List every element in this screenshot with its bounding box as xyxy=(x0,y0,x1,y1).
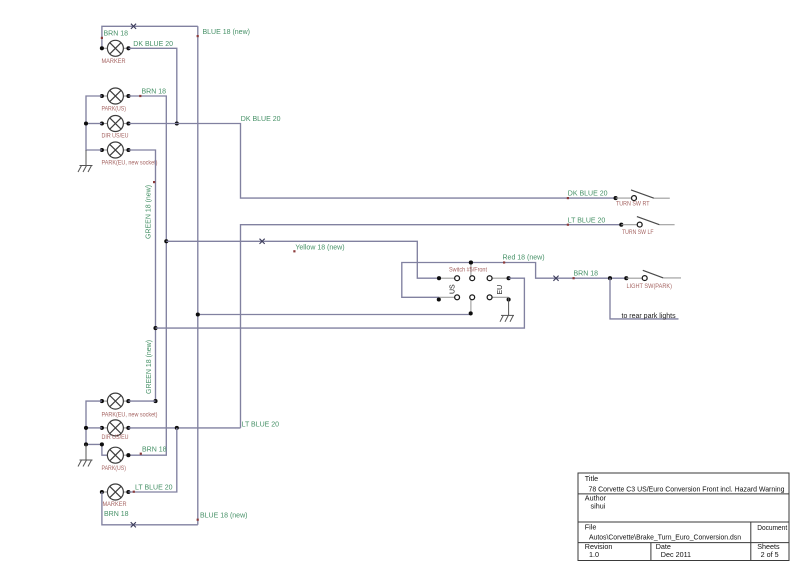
svg-text:LIGHT SW(PARK): LIGHT SW(PARK) xyxy=(627,283,673,290)
title block xyxy=(578,473,789,561)
svg-text:78 Corvette C3 US/Euro Convers: 78 Corvette C3 US/Euro Conversion Front … xyxy=(589,484,785,493)
pin lead mid bottom xyxy=(470,299,472,314)
pin circle row2 c3 xyxy=(487,295,492,300)
junction dot LT BLUE riser xyxy=(175,426,179,430)
lamp PARK(US) (bottom) xyxy=(86,442,130,463)
pad dot EU bottom xyxy=(507,297,511,301)
tick BRN 18 top anchor xyxy=(101,37,103,39)
junction dot Red at mid pin lead xyxy=(469,260,473,264)
svg-text:PARK(US): PARK(US) xyxy=(102,465,127,472)
node ground bus (top-left) xyxy=(86,96,102,150)
svg-text:Red 18 (new): Red 18 (new) xyxy=(503,255,545,262)
tick DK BLUE right anchor xyxy=(567,197,569,199)
wire bottom lamp to GREEN terminal xyxy=(128,400,155,402)
X crossing mark on yellow wire xyxy=(260,239,265,244)
svg-text:GREEN 18 (new): GREEN 18 (new) xyxy=(146,340,153,394)
pad dot mid bottom xyxy=(469,311,473,315)
svg-text:TURN SW RT: TURN SW RT xyxy=(616,200,650,207)
svg-text:sihui: sihui xyxy=(591,502,606,511)
turn switch RT xyxy=(614,190,670,201)
ground lead (top-left) xyxy=(85,150,87,165)
svg-text:EU: EU xyxy=(497,285,504,295)
lamp PARK(EU, new socket) (bottom) xyxy=(100,393,131,409)
pin lead right top xyxy=(492,277,509,279)
tick GREEN top anchor xyxy=(153,181,155,183)
svg-text:BLUE 18 (new): BLUE 18 (new) xyxy=(200,512,247,519)
junction dot bus DIR (bottom) xyxy=(84,426,88,430)
wire BLUE 18 (new) vertical bus xyxy=(197,26,199,525)
pin lead left top xyxy=(439,277,455,279)
tick BRN bottom anchor xyxy=(140,453,142,455)
lamp MARKER (bottom) xyxy=(100,484,131,500)
svg-text:BLUE 18 (new): BLUE 18 (new) xyxy=(203,29,250,36)
svg-text:US: US xyxy=(449,284,456,294)
junction dot bus (top) xyxy=(84,121,88,125)
junction dot GREEN at EU horizontal xyxy=(153,326,157,330)
ground lead (switch EU) xyxy=(508,297,510,315)
svg-text:PARK(EU, new socket): PARK(EU, new socket) xyxy=(102,159,158,166)
X crossing mark on top run xyxy=(131,24,136,29)
pad dot EU top xyxy=(507,276,511,280)
svg-text:Yellow 18 (new): Yellow 18 (new) xyxy=(295,245,344,252)
pin circle row2 c1 xyxy=(455,295,460,300)
wire to rear park lights xyxy=(610,278,679,319)
wire BRN 18 top run from MARKER left up and across to BLUE 18 vertical xyxy=(102,26,198,48)
svg-text:DK BLUE 20: DK BLUE 20 xyxy=(568,191,608,198)
wire bus tee to DIR (bottom) xyxy=(86,427,102,429)
tick Red anchor xyxy=(503,261,505,263)
svg-text:Dec 2011: Dec 2011 xyxy=(661,550,691,559)
junction dot GREEN at bottom lamp xyxy=(153,399,157,403)
junction dot BLUE branch xyxy=(196,312,200,316)
pin lead left bottom xyxy=(439,296,455,298)
pin circle row1 c3 xyxy=(487,276,492,281)
wire GREEN 18 (new) vertical xyxy=(129,150,156,401)
svg-text:DK BLUE 20: DK BLUE 20 xyxy=(241,116,281,123)
wire BLUE 18 branch to switch mid bottom xyxy=(198,314,471,316)
tick BRN 18 anchor xyxy=(139,95,141,97)
svg-text:Document: Document xyxy=(757,523,787,532)
pin lead mid top xyxy=(470,263,472,277)
tick BRN right anchor xyxy=(573,277,575,279)
svg-text:Autos\Corvette\Brake_Turn_Euro: Autos\Corvette\Brake_Turn_Euro_Conversio… xyxy=(589,532,741,541)
tick Yellow anchor xyxy=(293,250,295,252)
ground (bottom-left) xyxy=(78,460,93,467)
svg-text:DIR US/EU: DIR US/EU xyxy=(102,434,129,441)
wire BRN 18 bottom run from MARKER to BLUE vertical xyxy=(102,492,198,525)
node ground bus (bottom-left) xyxy=(86,401,102,444)
ground (switch EU) xyxy=(500,315,514,321)
junction dot BRN/Yellow node xyxy=(164,239,168,243)
svg-text:LT BLUE 20: LT BLUE 20 xyxy=(242,422,280,429)
svg-text:BRN 18: BRN 18 xyxy=(142,446,167,453)
pad dot mid top xyxy=(469,260,473,264)
svg-text:BRN 18: BRN 18 xyxy=(574,271,599,278)
svg-text:to rear park lights: to rear park lights xyxy=(622,313,677,320)
light switch (PARK) xyxy=(608,270,681,280)
pin circle row1 c2 xyxy=(470,276,475,281)
ground lead (bottom-left) xyxy=(85,444,87,459)
lamp DIR US/EU (top) xyxy=(100,116,131,132)
wire Red 18 (new) from switch US bottom loop to light switch xyxy=(402,263,627,298)
wire DK BLUE 20 from MARKER down to DIR node xyxy=(129,48,177,123)
svg-text:MARKER: MARKER xyxy=(103,501,127,508)
wire DK BLUE 20 from DIR right across and down to turn switch RT xyxy=(129,124,616,199)
wire GREEN branch from green vertical to switch EU top xyxy=(156,278,525,328)
lamp PARK(EU, new socket) (top) xyxy=(100,142,131,158)
svg-text:LT BLUE 20: LT BLUE 20 xyxy=(568,217,606,224)
svg-text:2 of 5: 2 of 5 xyxy=(761,550,779,559)
svg-text:GREEN 18 (new): GREEN 18 (new) xyxy=(145,185,152,239)
pin circle row2 c2 xyxy=(470,295,475,300)
tick BLUE 18 top anchor xyxy=(197,35,199,37)
svg-text:BRN 18: BRN 18 xyxy=(142,89,167,96)
svg-text:BRN 18: BRN 18 xyxy=(104,31,129,38)
svg-text:TURN SW LF: TURN SW LF xyxy=(622,229,654,236)
tick BLUE bottom anchor xyxy=(197,519,199,521)
lamp DIR US/EU (bottom) xyxy=(100,420,131,436)
X crossing mark on red/brn wire xyxy=(553,276,558,281)
tick LT BLUE bottom anchor xyxy=(133,491,135,493)
svg-text:Title: Title xyxy=(585,474,598,483)
wire bus tee to DIR (top) xyxy=(86,123,102,125)
pad dot US top xyxy=(437,276,441,280)
wire LT BLUE 20 from bottom MARKER up to DIR wire xyxy=(128,428,176,492)
svg-text:BRN 18: BRN 18 xyxy=(104,511,129,518)
svg-text:File: File xyxy=(585,523,597,532)
pin lead right bottom xyxy=(492,296,509,298)
svg-text:PARK(EU, new socket): PARK(EU, new socket) xyxy=(102,411,158,418)
lamp MARKER (top) xyxy=(100,40,131,56)
svg-text:DIR US/EU: DIR US/EU xyxy=(102,132,129,139)
tick LT BLUE right anchor xyxy=(567,224,569,226)
svg-text:Switch #5/Front: Switch #5/Front xyxy=(449,267,487,274)
wire LT BLUE 20 across to turn switch LF xyxy=(241,225,622,428)
svg-text:DK BLUE 20: DK BLUE 20 xyxy=(133,41,173,48)
svg-text:LT BLUE 20: LT BLUE 20 xyxy=(135,484,173,491)
wire LT BLUE 20 bottom run xyxy=(128,427,240,429)
pin circle row1 c1 xyxy=(455,276,460,281)
junction dot bus PARK US (bottom) xyxy=(84,442,88,446)
wire BRN 18 vertical from top PARK(US) to bottom PARK(US) xyxy=(128,96,166,455)
junction dot DK BLUE at DIR wire xyxy=(175,121,179,125)
ground (top-left) xyxy=(78,166,93,173)
pad dot US bottom xyxy=(437,297,441,301)
svg-text:PARK(US): PARK(US) xyxy=(102,105,127,112)
switch Switch #5/Front xyxy=(437,263,511,315)
lamp PARK(US) (top) xyxy=(100,88,131,104)
wire Yellow 18 (new) from BRN junction to switch US top xyxy=(166,241,439,278)
svg-text:1.0: 1.0 xyxy=(589,550,599,559)
svg-text:MARKER: MARKER xyxy=(102,58,126,65)
turn switch LF xyxy=(619,217,674,227)
X crossing mark bottom run xyxy=(131,522,136,527)
